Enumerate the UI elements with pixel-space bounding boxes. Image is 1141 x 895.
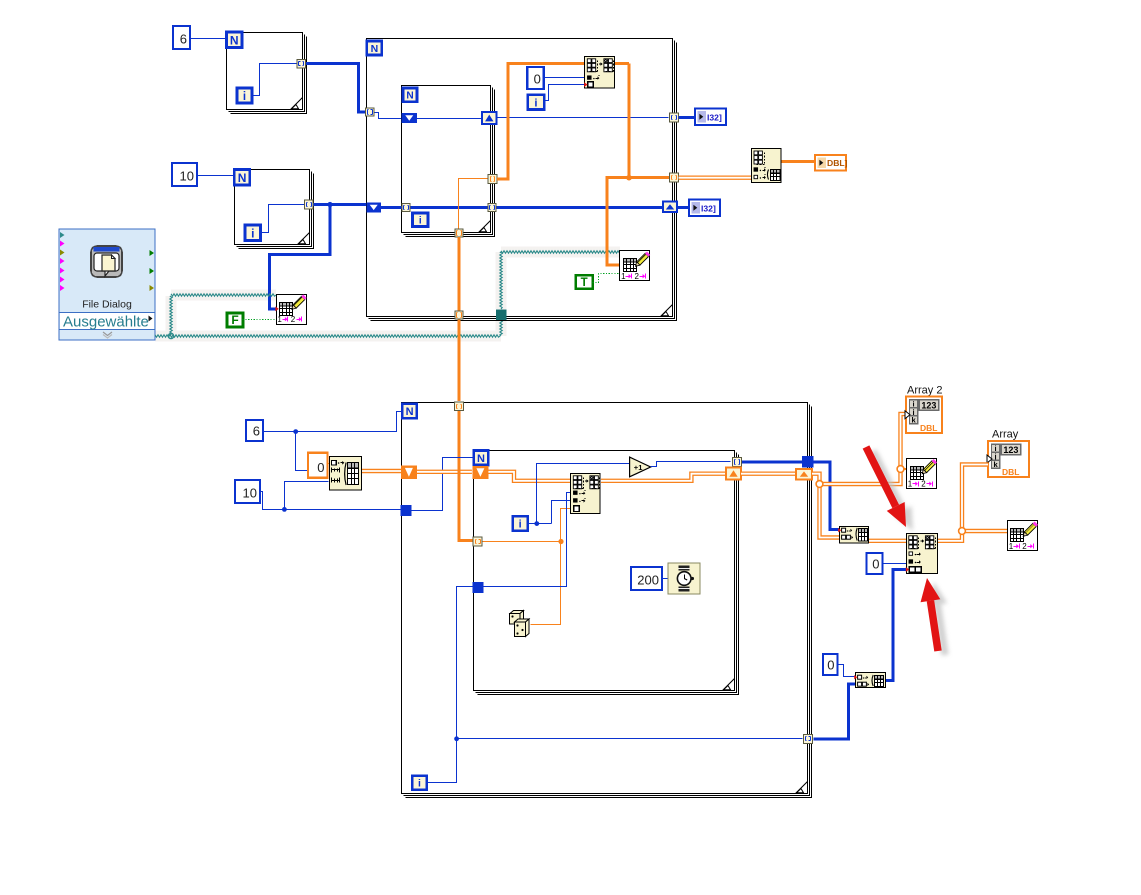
svg-text:200: 200 xyxy=(637,573,659,588)
svg-text:10: 10 xyxy=(180,169,194,184)
junction orange xyxy=(626,175,632,181)
junction 6 wire xyxy=(293,429,298,434)
path wire riser to write1 xyxy=(170,296,172,336)
for loop 1 (count 6) xyxy=(227,33,307,114)
svg-text:1: 1 xyxy=(277,315,282,324)
junction 2D J3 xyxy=(959,528,966,535)
wire build1 to replace3 xyxy=(869,539,906,543)
wire to Array ind xyxy=(962,465,988,532)
write to spreadsheet node 1 xyxy=(277,295,307,325)
count terminal N3 xyxy=(367,41,382,55)
main for loop (top) xyxy=(367,39,677,321)
constant 0 (right) xyxy=(867,553,883,574)
indicator Array 2 xyxy=(905,397,942,434)
svg-text:DBL]: DBL] xyxy=(827,158,848,168)
File Dialog express VI xyxy=(59,229,156,340)
wire dice up xyxy=(531,542,561,625)
svg-text:i: i xyxy=(419,215,422,226)
svg-text:1: 1 xyxy=(621,272,626,281)
wire 1D row to replace node xyxy=(497,63,629,179)
increment node +1 xyxy=(630,457,651,477)
shift tunnel blue (right edge) xyxy=(802,456,814,468)
wire 2D to write3 xyxy=(901,468,907,470)
wire 10 to N2 xyxy=(197,175,234,177)
wire tunnel row1 xyxy=(479,493,571,587)
wire 0 to replace1 xyxy=(545,77,585,79)
iteration terminal i4 xyxy=(413,213,429,227)
tunnel main right blue xyxy=(670,113,679,122)
coercion dot replace1 xyxy=(584,82,587,87)
for loop 2 (count 10) xyxy=(235,170,314,249)
wire build2 to replace3 xyxy=(886,570,906,681)
svg-text:N: N xyxy=(477,453,485,465)
svg-text:DBL: DBL xyxy=(920,423,937,433)
wire rand to replace xyxy=(561,509,571,542)
path wire inside loop riser xyxy=(500,252,502,309)
svg-text:10: 10 xyxy=(243,486,257,501)
wire 0 to replace3 xyxy=(883,563,907,565)
iteration terminal i6 xyxy=(513,516,528,530)
count terminal N2 xyxy=(234,170,250,186)
svg-text:File Dialog: File Dialog xyxy=(82,299,132,311)
wire rand col down xyxy=(457,237,460,401)
tunnel loop2 out xyxy=(305,200,314,209)
wire 200 to wait xyxy=(663,578,668,580)
svg-text:N: N xyxy=(406,406,414,418)
wire 2D from shift xyxy=(812,474,839,538)
initialize array node xyxy=(330,457,362,491)
constant 0 (orange) xyxy=(308,453,328,478)
iteration terminal i1 xyxy=(237,88,252,103)
wire 6 to N1 xyxy=(191,38,227,40)
svg-text:0: 0 xyxy=(534,72,541,87)
count terminal N5 xyxy=(402,404,417,419)
wire shiftreg across xyxy=(417,118,483,120)
tunnel main right orange xyxy=(670,173,679,182)
indicator DBL array xyxy=(815,155,848,171)
constant 6 xyxy=(173,26,190,49)
junction i6 xyxy=(534,521,539,526)
wire to I32 indicator 2 xyxy=(677,206,689,209)
wire to write4 xyxy=(962,529,1007,533)
count terminal N4 xyxy=(403,88,417,102)
wire replace3 out xyxy=(938,531,962,541)
wire 6 to N5 xyxy=(263,412,403,432)
wire +1 out xyxy=(651,462,731,467)
wire replace b out xyxy=(601,474,726,481)
wire i2 to tunnel xyxy=(261,205,305,233)
constant 10 xyxy=(172,163,197,186)
shift register left main (blue) xyxy=(366,203,381,213)
path wire bottom run xyxy=(155,335,500,337)
svg-text:N: N xyxy=(238,171,247,185)
wire 6 branch to init xyxy=(296,432,329,471)
svg-text:N: N xyxy=(371,43,379,55)
wire shift out xyxy=(741,472,796,476)
wire 10 branch to init xyxy=(285,482,329,510)
tunnel inner-bottom-left orange xyxy=(473,537,482,546)
write to spreadsheet node 3 xyxy=(907,459,937,489)
wire loop2 array out xyxy=(313,203,366,206)
path wire into write node 1 xyxy=(171,294,276,296)
wire 10 inside to N6 xyxy=(412,458,473,511)
svg-text:Array: Array xyxy=(992,429,1019,441)
wire T to write2 (dotted) xyxy=(593,274,619,283)
wire i6 to replace idx xyxy=(537,464,631,524)
constant 0 (bottom right) xyxy=(823,654,838,675)
path wire into write node 2 xyxy=(501,251,620,253)
shift register right inner (orange) xyxy=(726,468,741,480)
wire 0 to init xyxy=(328,463,330,465)
build array node 1 xyxy=(838,527,868,544)
shift register left bottom (orange) xyxy=(401,466,417,479)
svg-text:2: 2 xyxy=(1022,542,1027,551)
indicator Array xyxy=(987,441,1029,477)
label Array xyxy=(992,429,1019,441)
svg-text:i: i xyxy=(418,778,421,790)
svg-text:6: 6 xyxy=(253,424,260,439)
wire init 2D out xyxy=(362,469,402,473)
shift register right (blue) xyxy=(482,112,497,124)
svg-text:123: 123 xyxy=(1003,445,1018,455)
wire random col inside inner loop xyxy=(459,179,489,229)
svg-text:1: 1 xyxy=(908,479,913,488)
tunnel inner left blue xyxy=(402,204,410,212)
wire 2D to index array xyxy=(679,175,751,179)
svg-text:6: 6 xyxy=(180,32,187,47)
boolean constant T xyxy=(576,275,593,289)
junction 2D J2 xyxy=(897,466,904,473)
wire orange row in xyxy=(483,541,561,543)
write to spreadsheet node 4 xyxy=(1008,521,1038,551)
svg-text:N: N xyxy=(230,33,239,47)
wire i-col outside xyxy=(457,587,473,739)
wait ms node xyxy=(668,563,700,594)
svg-text:T: T xyxy=(581,277,588,289)
svg-text:123: 123 xyxy=(921,400,936,410)
junction 2D J1 xyxy=(816,481,823,488)
wire rand col lower xyxy=(459,410,473,541)
wire 0 to build2 xyxy=(838,665,855,677)
index array node xyxy=(752,149,782,183)
svg-text:i: i xyxy=(243,91,246,103)
replace array subset node 3 xyxy=(907,534,938,574)
tunnel loop1 out xyxy=(297,59,306,68)
svg-text:I32]: I32] xyxy=(701,203,716,213)
red arrow 1 xyxy=(863,445,913,531)
wire inner to right tunnel xyxy=(497,117,669,119)
wire shift to inner shift xyxy=(417,470,472,474)
tunnel inner right orange xyxy=(488,175,497,184)
tunnel inner right blue b xyxy=(733,457,742,466)
path wire halo texture xyxy=(155,247,620,342)
junction orange inner xyxy=(558,539,563,544)
wire replace out down xyxy=(629,63,669,177)
wire to write node 2 xyxy=(607,178,629,265)
constant 0 (top) xyxy=(527,67,544,89)
wire to I32 indicator 1 xyxy=(679,116,695,119)
wire row to DBL xyxy=(782,160,816,163)
wire main array row xyxy=(381,206,663,209)
count terminal N1 xyxy=(227,32,243,48)
svg-text:Ausgewählte: Ausgewählte xyxy=(63,314,149,331)
dice random node xyxy=(510,611,530,637)
wire 10 to tunnel xyxy=(261,492,401,510)
indicator I32 array 1 xyxy=(695,109,726,126)
svg-text:I32]: I32] xyxy=(707,112,722,122)
wire i3 to replace1 xyxy=(545,85,585,101)
wire loop to build2 xyxy=(814,684,856,739)
tunnel 10 solid blue xyxy=(401,505,412,516)
indicator I32 array 2 xyxy=(689,200,720,217)
main for loop (bottom) xyxy=(402,403,812,798)
svg-text:0: 0 xyxy=(872,557,879,572)
shift register left inner (orange) xyxy=(472,466,488,479)
tunnel bottom right xyxy=(803,734,812,743)
svg-text:i: i xyxy=(534,97,537,109)
constant 6 (lower) xyxy=(246,420,263,441)
wire branch to write node 1 xyxy=(270,205,331,309)
red arrow 2 xyxy=(921,578,949,656)
wire i row to tunnel xyxy=(457,738,803,740)
count terminal N6 xyxy=(474,451,489,466)
boolean constant F xyxy=(227,313,243,327)
junction loop2 wire xyxy=(327,202,332,207)
wire i1 to tunnel xyxy=(253,64,297,96)
tunnel bottom-loop top orange xyxy=(455,402,464,411)
svg-text:0: 0 xyxy=(827,658,834,673)
wire 2D branch right xyxy=(820,414,907,484)
replace array subset node 1 xyxy=(585,57,615,89)
svg-text:2: 2 xyxy=(291,315,296,324)
tunnel main bottom orange xyxy=(455,311,463,319)
svg-text:Array 2: Array 2 xyxy=(907,385,942,397)
svg-text:0: 0 xyxy=(317,460,324,475)
svg-text:2: 2 xyxy=(635,272,640,281)
shift register left (blue) xyxy=(402,113,418,123)
build array node 2 xyxy=(854,673,885,688)
svg-text:N: N xyxy=(406,90,413,101)
iteration terminal i5 xyxy=(412,776,427,790)
svg-text:+1: +1 xyxy=(634,463,643,472)
junction i5 xyxy=(454,736,459,741)
svg-text:i: i xyxy=(519,519,522,531)
junction 10 wire xyxy=(282,507,287,512)
path wire junction xyxy=(168,333,173,338)
inner for loop (top) xyxy=(402,86,495,237)
svg-text:DBL: DBL xyxy=(1002,467,1019,477)
wire i5 up xyxy=(427,739,457,783)
wire 2D to replace node b xyxy=(488,472,570,481)
svg-text:i: i xyxy=(251,226,254,240)
wire F to write1 (dotted) xyxy=(243,319,275,321)
constant 10 (lower) xyxy=(235,480,260,503)
svg-text:1: 1 xyxy=(1009,542,1014,551)
coercion dot write1 xyxy=(275,307,278,312)
tunnel inner bottom orange xyxy=(455,229,463,237)
iteration terminal i3 xyxy=(528,95,545,110)
tunnel inner right blue xyxy=(488,204,496,212)
tunnel main left xyxy=(366,108,374,116)
wire i6 row2 xyxy=(552,501,571,524)
wire loop out to build1 xyxy=(813,462,839,530)
path wire up into loop xyxy=(500,320,502,336)
write to spreadsheet node 2 xyxy=(620,251,651,281)
wire rand col overlay xyxy=(457,463,460,480)
label Array 2 xyxy=(907,385,942,397)
svg-text:2: 2 xyxy=(921,479,926,488)
wire +1 to outer tunnel xyxy=(742,460,802,463)
wire tunnel to shiftreg xyxy=(375,113,403,119)
shift register right main (blue) xyxy=(663,202,677,212)
coercion dot replace3 xyxy=(906,567,909,572)
inner for loop (bottom) xyxy=(474,451,739,695)
tunnel main bottom teal xyxy=(496,310,507,321)
shift register right main (orange) xyxy=(796,469,812,480)
constant 200 xyxy=(631,567,662,590)
wire loop1 array out xyxy=(305,64,366,112)
iteration terminal i2 xyxy=(245,225,261,241)
svg-text:F: F xyxy=(231,313,238,327)
wire i6 right xyxy=(528,523,552,525)
tunnel i-col solid blue xyxy=(472,582,483,593)
replace array subset node b xyxy=(571,474,601,514)
